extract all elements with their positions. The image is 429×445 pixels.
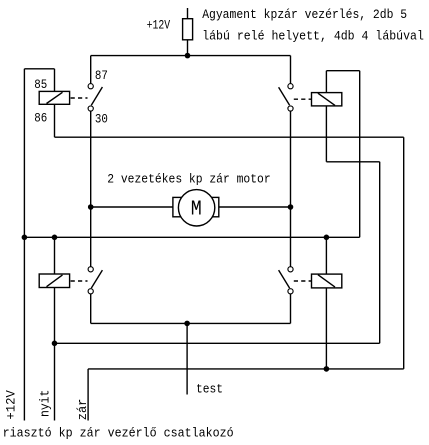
dashed link coil K3 to contact: [71, 280, 88, 282]
contact circle upper-right top: [288, 84, 293, 89]
contact circle lower-left top: [88, 267, 93, 272]
junction motor left: [88, 204, 94, 210]
wire V2b coil3L top: [54, 237, 56, 274]
contact 30 circle left: [88, 106, 93, 111]
contact circle lower-right top: [288, 267, 293, 272]
relay coil K2 right: [312, 93, 342, 106]
wire H3 loop top: [326, 70, 359, 72]
wire H10: [88, 368, 404, 370]
contact circle lower-left bottom: [88, 289, 93, 294]
svg-text:Agyament kpzár vezérlés, 2db 5: Agyament kpzár vezérlés, 2db 5: [202, 7, 407, 22]
wire H9: [55, 342, 380, 344]
svg-text:zár: zár: [75, 399, 90, 421]
wire V6 coil2R top: [325, 71, 327, 93]
contact lever lower-left: [91, 270, 102, 288]
relay coil K1 left: [39, 91, 69, 104]
wire fuse to rail: [187, 40, 189, 56]
junction H10/V6b: [324, 366, 330, 372]
contact lever lower-right: [279, 270, 290, 288]
junction V2b/H7: [52, 235, 58, 241]
wire V7 loop right: [359, 71, 361, 238]
junction fuse/rail: [185, 53, 191, 59]
wire left contact top V3a: [90, 56, 92, 84]
motor connector bracket right: [209, 197, 219, 216]
wire right contact top V5a: [290, 56, 292, 84]
dashed link contact to coil K2: [294, 98, 312, 100]
motor M1 body: [178, 190, 214, 226]
svg-text:M: M: [191, 198, 202, 222]
wire zar pin: [87, 369, 89, 421]
wire V2a coil1L bottom: [54, 104, 56, 137]
wire motor left lead: [91, 206, 173, 208]
wire V3c: [90, 294, 92, 323]
wire motor right lead: [219, 206, 291, 208]
wire V3b left contact to lower contact: [90, 111, 92, 266]
svg-text:85: 85: [34, 77, 47, 92]
dashed link coil K1 to contact: [71, 97, 88, 99]
contact 87 circle left: [88, 84, 93, 89]
svg-text:+12V: +12V: [3, 390, 18, 420]
contact circle lower-right bottom: [288, 289, 293, 294]
junction V6b/H7: [324, 235, 330, 241]
wire V4b test pin: [186, 323, 188, 394]
wire V5c: [290, 294, 292, 323]
junction V1/H7: [22, 235, 28, 241]
wire H7 coil supply rail: [24, 236, 359, 238]
wire H2 top left: [24, 68, 54, 70]
relay coil K3 lower left: [39, 274, 69, 288]
contact lever upper-right: [279, 87, 290, 105]
wire V6a coil2R bottom: [325, 106, 327, 162]
dashed link contact to coil K4: [294, 280, 312, 282]
wire V8: [379, 162, 381, 343]
wire V9 right edge riser: [403, 137, 405, 369]
wire +12V rail H1: [91, 55, 291, 57]
contact circle upper-right bottom: [288, 106, 293, 111]
svg-text:2 vezetékes kp zár motor: 2 vezetékes kp zár motor: [107, 171, 271, 186]
svg-text:riasztó kp zár vezérlő csatlak: riasztó kp zár vezérlő csatlakozó: [3, 426, 234, 441]
wire +12V supply drop: [187, 8, 189, 19]
svg-text:+12V: +12V: [147, 17, 171, 32]
svg-text:30: 30: [95, 112, 108, 127]
junction motor right: [288, 204, 294, 210]
svg-text:test: test: [196, 382, 223, 397]
relay coil K4 lower right: [312, 274, 342, 288]
svg-text:nyit: nyit: [37, 390, 52, 417]
svg-text:lábú relé helyett, 4db 4 lábúv: lábú relé helyett, 4db 4 lábúval: [202, 29, 424, 44]
motor connector bracket left: [173, 197, 183, 216]
wire V1 +12V pin riser: [23, 69, 25, 421]
junction H9/V2b: [52, 341, 58, 347]
wire V5b: [290, 111, 292, 266]
wire H5: [326, 161, 379, 163]
svg-text:87: 87: [95, 68, 108, 83]
junction H8/test: [184, 321, 190, 327]
wire V2b coil3L bottom to nyit pin: [54, 288, 56, 421]
wire V2a coil1L top: [54, 69, 56, 92]
contact lever upper-left: [91, 87, 102, 105]
fuse F1: [183, 19, 193, 40]
wire H4: [55, 136, 404, 138]
wire V6b bottom: [325, 288, 327, 369]
svg-text:86: 86: [34, 110, 47, 125]
wire V6b top: [325, 237, 327, 274]
wire H8 contact commons: [91, 322, 291, 324]
